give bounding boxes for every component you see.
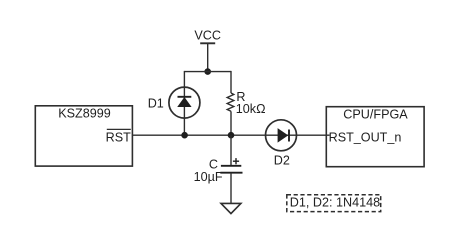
svg-text:VCC: VCC <box>194 29 221 43</box>
capacitor C 10uF <box>220 135 242 203</box>
IC box U1 KSZ8999 <box>35 106 132 166</box>
junction dot at D1/RST node <box>181 132 188 139</box>
polarity plus sign <box>233 158 239 164</box>
svg-text:10kΩ: 10kΩ <box>236 102 266 116</box>
svg-text:10µF: 10µF <box>194 170 223 184</box>
note box: D1, D2: 1N4148 <box>287 195 381 212</box>
junction dot VCC node <box>204 68 211 75</box>
svg-text:CPU/FPGA: CPU/FPGA <box>343 107 408 121</box>
IC box U2 CPU/FPGA <box>326 107 424 167</box>
svg-text:D2: D2 <box>274 153 290 167</box>
svg-text:KSZ8999: KSZ8999 <box>58 107 111 121</box>
svg-text:D1: D1 <box>148 97 164 111</box>
svg-text:D1, D2: 1N4148: D1, D2: 1N4148 <box>290 195 380 209</box>
wire: top horizontal between D1 and R <box>184 71 231 73</box>
diode D2 (circle) <box>266 120 297 151</box>
resistor R 10k <box>227 71 234 135</box>
ground <box>221 203 241 213</box>
svg-text:RST: RST <box>106 130 131 144</box>
svg-text:RST_OUT_n: RST_OUT_n <box>329 130 402 144</box>
junction dot at R/C node <box>228 132 235 139</box>
svg-text:C: C <box>209 157 218 171</box>
wire: main horizontal net RST <box>132 134 329 136</box>
wire: D1 branch vertical <box>183 71 185 135</box>
diode D1 (circle) <box>169 87 200 118</box>
wire: VCC stem <box>207 43 209 71</box>
